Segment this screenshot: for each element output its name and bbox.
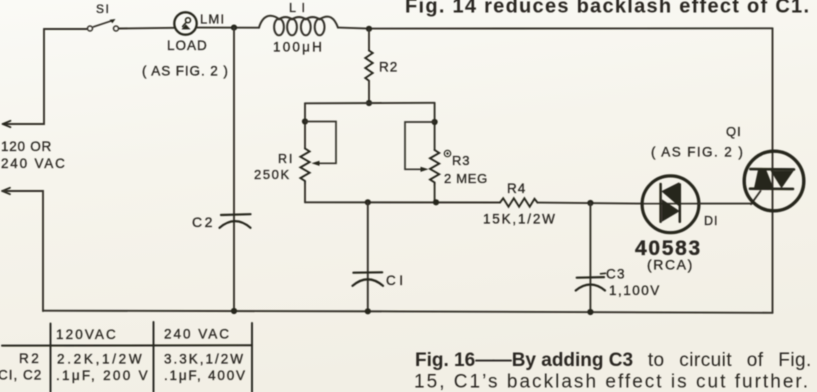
wire top rail lamp to L1, node at C2 tap: [197, 27, 259, 29]
svg-text:LI: LI: [289, 1, 310, 15]
resistor R1: [300, 149, 309, 184]
table column line 1: [50, 324, 52, 392]
label C3 leader tick: [601, 272, 606, 275]
terminal arrow lower: [2, 188, 10, 194]
arrow R1 wiper: [312, 161, 320, 166]
wire C3 branch upper: [589, 203, 591, 312]
table column line 3: [251, 323, 253, 392]
svg-text:2 MEG: 2 MEG: [444, 171, 488, 186]
capacitor C3: [576, 277, 605, 290]
terminal arrow upper: [3, 121, 11, 127]
svg-text:QI: QI: [726, 124, 742, 139]
node top C2 junction: [231, 25, 237, 31]
wire right vertical top rail down to Q1: [772, 28, 774, 151]
svg-text:15K,1/2W: 15K,1/2W: [483, 212, 557, 227]
svg-text:120 OR: 120 OR: [1, 139, 52, 154]
wire R2 top lead: [368, 29, 370, 51]
wire R3 bottom lead: [434, 185, 436, 202]
wire R3 top lead: [434, 103, 436, 150]
svg-text:15, C1’s backlash effect is cu: 15, C1’s backlash effect is cut further.: [414, 371, 808, 392]
wire left vertical lower: [3, 191, 43, 311]
node bottom C3: [587, 309, 593, 315]
svg-text:R3: R3: [452, 153, 470, 168]
svg-text:.1μF, 400V: .1μF, 400V: [164, 368, 247, 383]
resistor R4: [500, 198, 538, 206]
table header underline: [2, 344, 252, 346]
wire R1 wiper loop: [305, 122, 336, 164]
svg-text:C2: C2: [192, 214, 215, 230]
resistor R2: [365, 51, 372, 81]
switch S1: [88, 19, 119, 31]
svg-text:SI: SI: [96, 2, 110, 16]
svg-text:DI: DI: [704, 214, 719, 228]
node R3 bottom: [433, 199, 439, 205]
svg-text:250K: 250K: [254, 167, 291, 182]
lamp LM1: [174, 12, 196, 34]
wire C2 branch upper: [233, 28, 235, 311]
wire mid bottom rail left of R4: [305, 201, 500, 203]
svg-text:240 VAC: 240 VAC: [164, 327, 231, 342]
node R3 wiper loop: [432, 119, 438, 125]
wire top rail L1 to right corner: [338, 28, 773, 29]
svg-text:120VAC: 120VAC: [56, 327, 118, 342]
table column line 2: [153, 322, 155, 392]
wire bottom rail: [43, 311, 773, 313]
svg-text:CI, C2: CI, C2: [0, 368, 42, 383]
svg-text:RI: RI: [278, 152, 294, 166]
wire top rail S1 to lamp: [119, 27, 175, 30]
svg-text:LOAD: LOAD: [167, 38, 208, 53]
diac D1: [642, 176, 699, 233]
svg-text:R2: R2: [19, 351, 41, 366]
node mid top rail: [366, 100, 372, 106]
svg-text:Fig. 16——By adding C3 to circu: Fig. 16——By adding C3 to circuit of Fig.: [415, 350, 812, 371]
arrow R3 wiper: [421, 167, 429, 172]
wire mid top rail: [305, 102, 435, 105]
wire D1 gate to Q1: [699, 203, 752, 205]
svg-text:100μH: 100μH: [273, 40, 324, 55]
svg-text:.1μF, 200 V: .1μF, 200 V: [56, 368, 150, 383]
capacitor C2: [220, 214, 251, 228]
svg-text:(RCA): (RCA): [647, 257, 694, 273]
wire R1 bottom lead: [304, 184, 306, 203]
svg-text:LMI: LMI: [200, 12, 225, 27]
wire mid rail R4 to D1: [538, 203, 643, 204]
wire top rail left segment: [44, 28, 87, 30]
svg-text:R2: R2: [379, 60, 398, 75]
svg-text:C3: C3: [606, 267, 626, 282]
wire R2 bottom lead: [368, 81, 370, 103]
svg-text:Fig. 14 reduces backlash effec: Fig. 14 reduces backlash effect of C1.: [405, 0, 809, 18]
svg-text:( AS FIG. 2 ): ( AS FIG. 2 ): [142, 64, 229, 79]
wire left vertical upper: [4, 29, 44, 124]
node top R2 junction: [366, 26, 372, 32]
node bottom C1: [365, 308, 371, 314]
inductor L1: [259, 16, 338, 36]
svg-text:2.2K,1/2W: 2.2K,1/2W: [57, 352, 144, 367]
triac Q1: [744, 151, 804, 313]
capacitor C1: [353, 272, 384, 286]
wire R3 wiper loop: [405, 122, 435, 169]
svg-text:1,100V: 1,100V: [609, 283, 661, 298]
node R1 wiper loop: [302, 118, 308, 124]
node bottom C2: [231, 308, 237, 314]
svg-text:3.3K,1/2W: 3.3K,1/2W: [164, 352, 245, 367]
resistor R3: [430, 150, 439, 185]
node C3 top: [587, 200, 593, 206]
svg-text:R4: R4: [507, 181, 526, 196]
svg-text:( AS FIG. 2 ): ( AS FIG. 2 ): [651, 145, 744, 160]
wire R1 top lead: [304, 103, 306, 148]
svg-text:CI: CI: [386, 273, 407, 288]
node C1 top: [365, 199, 371, 205]
footnote mark before R3: [444, 150, 450, 156]
svg-text:240 VAC: 240 VAC: [1, 156, 67, 171]
wire Q1 gate diagonal: [751, 191, 761, 204]
wire C1 branch upper: [367, 202, 369, 311]
